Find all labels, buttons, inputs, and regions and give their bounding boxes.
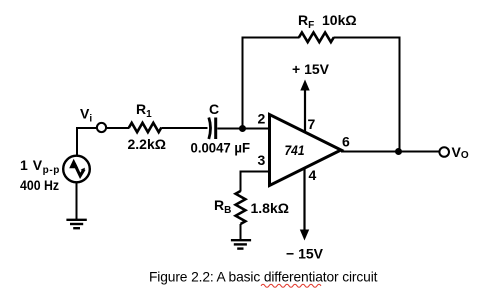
capacitor C right plate bbox=[214, 118, 217, 140]
source V1 waveform symbol bbox=[69, 159, 78, 168]
svg-text:1.8kΩ: 1.8kΩ bbox=[251, 200, 289, 216]
wire pin 3 vertical down to RB bbox=[240, 171, 242, 192]
capacitor C left plate (curved) bbox=[209, 118, 211, 140]
wire source bottom to ground bbox=[76, 182, 78, 220]
svg-text:C: C bbox=[209, 101, 219, 117]
wire feedback left vertical bbox=[242, 37, 244, 130]
pin 4 wire and -15V arrow bbox=[303, 169, 305, 232]
node Vo (open circle) bbox=[439, 147, 449, 157]
ground (source) bbox=[66, 219, 86, 221]
caption spellcheck squiggle bbox=[261, 284, 321, 287]
wire RB to ground bbox=[240, 224, 242, 241]
op-amp U1 741 triangle bbox=[270, 115, 342, 186]
wire Vi node to R1 bbox=[106, 127, 130, 129]
svg-text:2.2kΩ: 2.2kΩ bbox=[128, 136, 166, 152]
wire op-amp output to Vo bbox=[341, 151, 439, 153]
svg-text:741: 741 bbox=[285, 143, 305, 159]
wire pin 3 horizontal bbox=[240, 171, 270, 173]
wire feedback top left segment bbox=[242, 37, 300, 39]
wire input horizontal left of Vi node bbox=[76, 127, 97, 129]
resistor RF zigzag bbox=[299, 33, 334, 43]
wire vertical from Vi corner down to source bbox=[76, 127, 78, 156]
resistor R1 zigzag bbox=[129, 123, 161, 132]
pin 7 wire and +15V arrow bbox=[304, 88, 306, 131]
svg-text:Figure 2.2: A basic differenti: Figure 2.2: A basic differentiator circu… bbox=[149, 269, 378, 284]
svg-text:2: 2 bbox=[258, 111, 266, 127]
node Vi (open circle) bbox=[97, 123, 106, 132]
wire feedback top right segment bbox=[334, 37, 401, 39]
svg-text:7: 7 bbox=[308, 116, 316, 132]
svg-text:3: 3 bbox=[258, 152, 266, 168]
svg-text:6: 6 bbox=[342, 134, 350, 150]
node A junction dot bbox=[239, 125, 246, 132]
svg-text:0.0047 µF: 0.0047 µF bbox=[191, 140, 251, 156]
node B output junction dot bbox=[395, 148, 402, 155]
wire node A to op-amp pin 2 bbox=[243, 128, 270, 130]
ground (RB) bbox=[231, 239, 251, 241]
wire R1 to capacitor bbox=[162, 127, 208, 129]
svg-text:400 Hz: 400 Hz bbox=[20, 177, 59, 193]
svg-text:+ 15V: + 15V bbox=[292, 61, 330, 77]
resistor RB zigzag (vertical) bbox=[236, 191, 246, 224]
svg-text:4: 4 bbox=[309, 167, 317, 183]
wire capacitor to node A bbox=[217, 128, 242, 130]
source V1 circle bbox=[63, 156, 90, 183]
wire feedback right vertical bbox=[399, 37, 401, 153]
svg-text:− 15V: − 15V bbox=[286, 245, 324, 261]
